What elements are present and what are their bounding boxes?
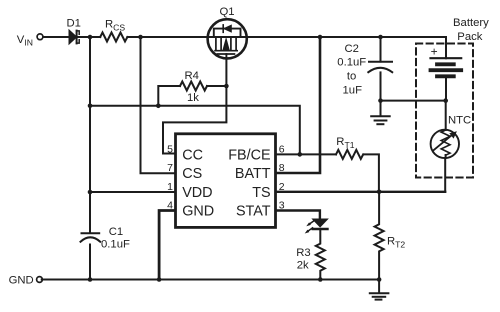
battery pack dashed box (416, 44, 473, 178)
svg-text:C2: C2 (345, 43, 359, 55)
wire GND pin 4 to bottom rail (thick) (159, 211, 175, 280)
svg-text:7: 7 (167, 162, 173, 174)
svg-text:TS: TS (252, 185, 270, 201)
svg-text:CC: CC (182, 148, 203, 164)
node junction C2 top (378, 35, 383, 40)
svg-text:CS: CS (182, 166, 202, 182)
svg-text:1k: 1k (187, 92, 199, 104)
wire R4/FB horizontal + down to pin6 (90, 106, 300, 155)
wire BATT pin 8 riser (thick) (276, 37, 320, 173)
resistor R4 (180, 82, 207, 91)
thermistor NTC (431, 130, 459, 158)
svg-text:GND: GND (9, 274, 34, 286)
node junction C1 bottom (88, 277, 93, 282)
svg-text:R4: R4 (185, 70, 199, 82)
wire STAT pin 3 to LED (276, 211, 320, 220)
ground symbol under C2 (371, 101, 390, 125)
svg-text:D1: D1 (67, 18, 81, 30)
wire R4 right (207, 85, 226, 87)
node junction pin6 (298, 152, 303, 157)
wire VDD pin 1 (90, 191, 175, 193)
wire battery minus down to NTC (445, 101, 447, 130)
wire Q1 to battery + (247, 37, 446, 58)
svg-text:2k: 2k (297, 260, 309, 272)
node V_IN terminal (37, 34, 43, 40)
ground symbol bottom right (370, 280, 389, 300)
wire TS pin 2 to NTC (276, 191, 445, 193)
svg-text:to: to (347, 70, 356, 82)
wire RT1 right down to TS line (364, 154, 379, 191)
capacitor C2 (368, 37, 392, 101)
resistor RT1 (336, 150, 363, 159)
node GND terminal (37, 277, 43, 283)
transistor Q1 (P-MOSFET) (208, 19, 247, 58)
svg-text:1: 1 (167, 181, 173, 193)
svg-text:C1: C1 (109, 226, 123, 238)
wire R4 left vertical (158, 86, 180, 106)
node junction VDD (88, 190, 93, 195)
node junction D1/RCS (88, 35, 93, 40)
node junction rail end / RT2 ground (377, 277, 382, 282)
wire VIN vertical x=90 down through VDD to C1 (89, 37, 91, 233)
node junction R3 bottom (318, 277, 323, 282)
diode D1 (Schottky) (69, 30, 79, 43)
wire bottom GND rail (42, 279, 379, 281)
svg-text:GND: GND (182, 204, 214, 220)
node junction R4 left (156, 104, 161, 109)
node junction GND pin rail (157, 277, 162, 282)
capacitor C1 (81, 233, 101, 242)
svg-text:2: 2 (279, 181, 285, 193)
wire D1 to RCS (79, 36, 101, 38)
wire C2 bottom to battery minus (381, 100, 446, 102)
svg-text:STAT: STAT (236, 204, 271, 220)
svg-text:Q1: Q1 (220, 6, 235, 18)
LED D2 (305, 219, 328, 233)
IC U1 box (176, 134, 276, 228)
resistor RT2 with leads (375, 192, 384, 280)
node junction C2 bottom (378, 98, 383, 103)
svg-text:1uF: 1uF (343, 85, 363, 97)
resistor R3 with leads (316, 229, 325, 280)
node junction BATT riser top (318, 35, 323, 40)
wire RCS to Q1 (127, 36, 207, 38)
svg-text:4: 4 (167, 200, 173, 212)
svg-text:8: 8 (279, 162, 285, 174)
svg-text:FB/CE: FB/CE (228, 148, 270, 164)
wire FB/CE pin 6 to RT1 (276, 153, 336, 155)
svg-text:NTC: NTC (448, 114, 471, 126)
wire Q1 gate down and to CC pin 5 (163, 58, 226, 153)
svg-text:BATT: BATT (235, 166, 271, 182)
svg-text:6: 6 (279, 144, 285, 156)
svg-text:3: 3 (279, 200, 285, 212)
svg-text:Pack: Pack (457, 31, 482, 43)
node junction TS / RT1 / RT2 (377, 190, 382, 195)
svg-text:5: 5 (167, 143, 173, 155)
node junction R4 line start (88, 104, 93, 109)
node junction R4 right / Q1 gate (224, 84, 229, 89)
svg-text:R3: R3 (296, 247, 310, 259)
node junction RCS/Q1 (138, 35, 143, 40)
battery B1 (431, 58, 462, 100)
wire NTC to TS line (444, 155, 446, 192)
node junction battery minus / NTC (443, 98, 448, 103)
svg-text:0.1uF: 0.1uF (101, 238, 130, 250)
svg-text:0.1uF: 0.1uF (337, 56, 366, 68)
wire RCS junction down to CS pin 7 (141, 37, 176, 173)
svg-text:Battery: Battery (453, 17, 489, 29)
wire top rail V_IN to D1 (43, 36, 70, 38)
svg-text:VDD: VDD (182, 185, 212, 201)
svg-text:+: + (431, 44, 438, 58)
resistor RCS (100, 33, 127, 42)
wire C1 bottom to GND rail (89, 245, 91, 280)
